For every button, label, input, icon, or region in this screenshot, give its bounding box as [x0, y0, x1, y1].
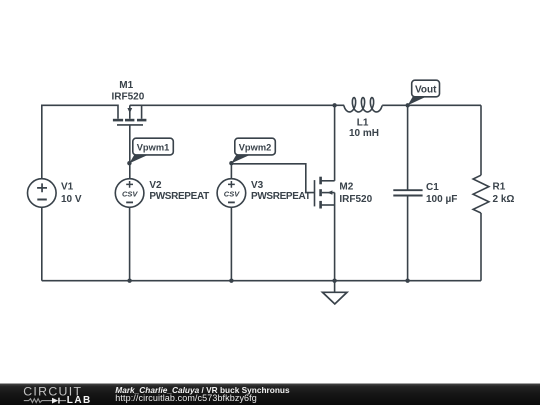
- svg-text:CSV: CSV: [122, 189, 138, 198]
- V2 value label: [149, 180, 209, 202]
- wire V2 bottom: [129, 207, 131, 280]
- wire M2 drain up: [334, 105, 336, 181]
- svg-text:V3: V3: [251, 180, 264, 191]
- wire C1 bottom: [407, 196, 409, 281]
- transistor M1 (IRF520, horizontal NMOS): [113, 105, 146, 125]
- footer bar: [0, 384, 540, 405]
- wire R1 top: [480, 105, 482, 175]
- svg-text:LAB: LAB: [67, 395, 90, 405]
- capacitor C1: [393, 190, 422, 195]
- svg-text:PWSREPEAT: PWSREPEAT: [149, 191, 209, 202]
- svg-text:10 mH: 10 mH: [349, 128, 379, 139]
- wire Vout node to R1: [408, 104, 481, 106]
- svg-text:V1: V1: [61, 182, 74, 193]
- M2 name label: [339, 182, 372, 205]
- svg-text:IRF520: IRF520: [112, 91, 145, 102]
- wire M2 drain node to L1: [335, 104, 345, 106]
- junction dot Vpwm1 node: [127, 161, 131, 165]
- voltage source V1: [28, 179, 57, 208]
- junction dot M2 drain / L1: [332, 103, 336, 107]
- M1 name label: [112, 80, 145, 102]
- svg-text:Vpwm2: Vpwm2: [239, 142, 272, 152]
- junction dot V3 bottom: [229, 279, 233, 283]
- R1 value label: [493, 182, 515, 205]
- svg-text:L1: L1: [357, 118, 369, 129]
- V1 value label: [61, 182, 82, 205]
- wire top rail left (V1 top to M1 source): [42, 105, 118, 179]
- voltage source V3 (CSV PWSREPEAT): [217, 179, 246, 208]
- transistor M2 (IRF520, vertical NMOS): [315, 177, 335, 209]
- svg-text:Vpwm1: Vpwm1: [137, 142, 170, 152]
- junction dot M2 source bottom: [332, 279, 336, 283]
- voltage source V2 (CSV PWSREPEAT): [115, 179, 144, 208]
- wire C1 top: [407, 105, 409, 190]
- inductor L1: [344, 98, 382, 112]
- C1 value label: [426, 182, 457, 205]
- junction dot Vout node: [406, 103, 410, 107]
- wire top rail mid (M1 drain to M2 drain node): [130, 104, 335, 106]
- wire V1 bottom: [41, 207, 43, 280]
- junction dot C1 bottom: [405, 279, 409, 283]
- svg-text:M1: M1: [119, 80, 133, 91]
- wire bottom rail: [42, 280, 481, 282]
- ground: [323, 281, 348, 304]
- wire M1 gate down to V2: [129, 125, 131, 179]
- footer logo CIRCUIT LAB: [23, 384, 90, 405]
- wire V3 bottom: [230, 207, 232, 280]
- svg-text:V2: V2: [149, 180, 162, 191]
- footer title text: [115, 385, 290, 403]
- svg-text:Vout: Vout: [415, 85, 437, 96]
- node Vpwm2 flag: [231, 138, 275, 163]
- svg-text:100 µF: 100 µF: [426, 194, 457, 205]
- svg-text:IRF520: IRF520: [339, 194, 372, 205]
- svg-text:C1: C1: [426, 182, 439, 193]
- junction dot Vpwm2 node: [229, 161, 233, 165]
- wire V3 top to Vpwm2 node: [230, 163, 232, 179]
- svg-text:M2: M2: [339, 182, 353, 193]
- wire Vpwm2 node to M2 gate: [231, 164, 314, 193]
- resistor R1: [473, 175, 489, 213]
- wire L1 to Vout node: [382, 104, 408, 106]
- svg-text:http://circuitlab.com/c573bfkb: http://circuitlab.com/c573bfkbzy6fg: [115, 393, 257, 403]
- node Vpwm1 flag: [129, 138, 173, 163]
- wire M2 source down: [334, 193, 336, 281]
- svg-text:PWSREPEAT: PWSREPEAT: [251, 191, 311, 202]
- wire R1 bottom: [480, 213, 482, 281]
- node Vout flag: [408, 80, 440, 105]
- junction dot V2 bottom: [127, 279, 131, 283]
- svg-text:2 kΩ: 2 kΩ: [493, 194, 515, 205]
- svg-text:R1: R1: [493, 182, 506, 193]
- svg-text:10 V: 10 V: [61, 194, 82, 205]
- L1 value label: [349, 118, 379, 139]
- svg-text:CSV: CSV: [224, 189, 240, 198]
- V3 value label: [251, 180, 311, 202]
